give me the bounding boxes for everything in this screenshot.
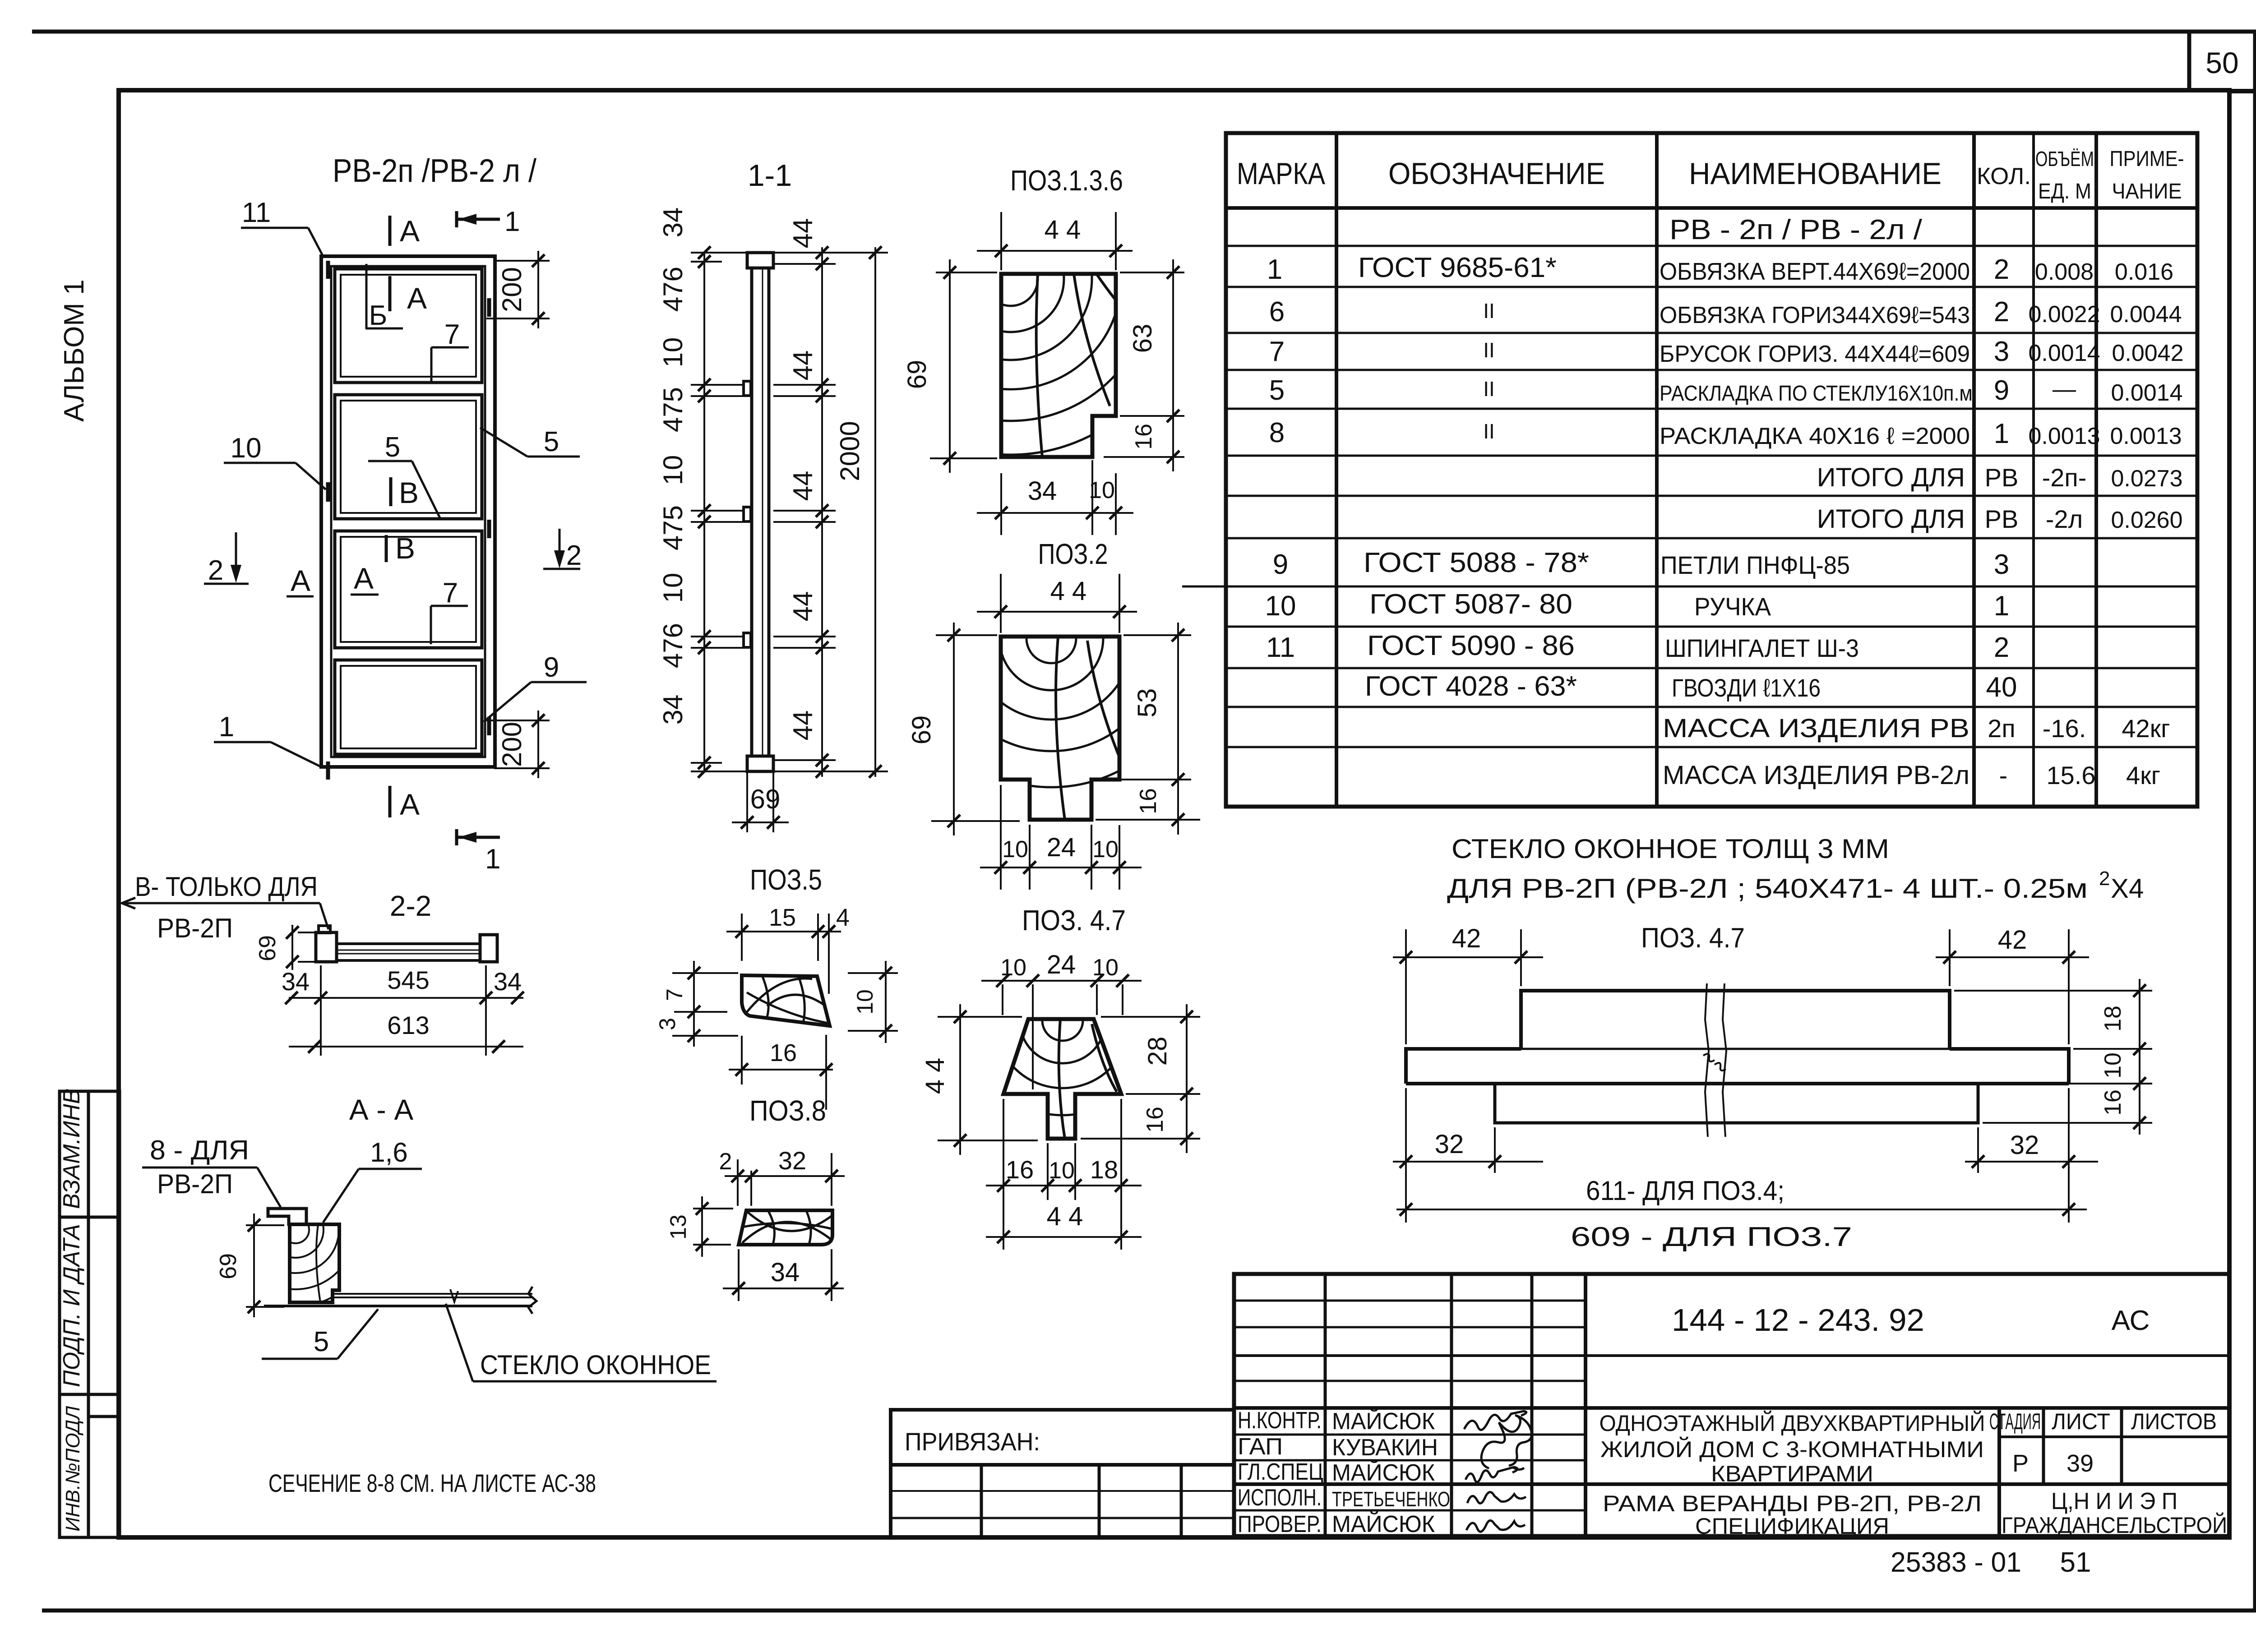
svg-text:42: 42: [1998, 925, 2027, 955]
svg-text:2п: 2п: [1988, 714, 2015, 743]
svg-text:СПЕЦИФИКАЦИЯ: СПЕЦИФИКАЦИЯ: [1695, 1514, 1889, 1539]
svg-text:МАССА ИЗДЕЛИЯ РВ: МАССА ИЗДЕЛИЯ РВ: [1663, 714, 1969, 743]
svg-text:НАИМЕНОВАНИЕ: НАИМЕНОВАНИЕ: [1689, 157, 1942, 191]
svg-text:А: А: [400, 214, 420, 248]
svg-text:6: 6: [1269, 296, 1285, 328]
svg-text:42кг: 42кг: [2122, 714, 2170, 743]
svg-text:44: 44: [788, 591, 818, 622]
svg-text:200: 200: [497, 722, 527, 767]
svg-text:10: 10: [1002, 836, 1028, 863]
svg-text:АС: АС: [2112, 1305, 2150, 1336]
svg-text:44: 44: [788, 711, 818, 741]
svg-text:11: 11: [1266, 632, 1295, 663]
svg-text:2: 2: [208, 555, 223, 586]
svg-text:0.0013: 0.0013: [2110, 423, 2182, 449]
svg-text:5: 5: [314, 1326, 329, 1357]
svg-text:3: 3: [1994, 336, 2009, 367]
svg-text:16: 16: [2100, 1089, 2126, 1116]
svg-text:—: —: [2053, 376, 2076, 402]
svg-text:ГАП: ГАП: [1238, 1434, 1283, 1460]
svg-text:Б: Б: [369, 300, 388, 331]
svg-text:18: 18: [2100, 1006, 2126, 1032]
svg-text:1,6: 1,6: [370, 1137, 407, 1167]
svg-text:50: 50: [2205, 46, 2238, 79]
svg-text:ОБОЗНАЧЕНИЕ: ОБОЗНАЧЕНИЕ: [1388, 157, 1605, 191]
svg-text:7: 7: [444, 319, 460, 350]
svg-text:16: 16: [770, 1039, 797, 1066]
svg-text:7: 7: [443, 577, 458, 609]
svg-text:5: 5: [1269, 375, 1285, 406]
svg-text:СЕЧЕНИЕ 8-8 СМ. НА ЛИСТЕ АС-3: СЕЧЕНИЕ 8-8 СМ. НА ЛИСТЕ АС-38: [268, 1469, 596, 1497]
svg-text:4 4: 4 4: [920, 1058, 950, 1094]
svg-text:МАССА ИЗДЕЛИЯ РВ-2л: МАССА ИЗДЕЛИЯ РВ-2л: [1663, 761, 1969, 790]
svg-text:51: 51: [2060, 1547, 2091, 1578]
svg-text:10: 10: [231, 433, 262, 464]
svg-text:2: 2: [2099, 868, 2110, 890]
svg-text:ОБЪЁМ: ОБЪЁМ: [2035, 147, 2094, 171]
svg-text:4 4: 4 4: [1045, 215, 1081, 245]
svg-text:1: 1: [1994, 591, 2009, 622]
svg-text:А: А: [400, 788, 420, 821]
svg-text:0.008: 0.008: [2035, 259, 2094, 285]
svg-text:РВ: РВ: [1985, 463, 2019, 492]
svg-text:200: 200: [497, 267, 527, 312]
svg-text:10: 10: [2100, 1052, 2126, 1079]
svg-text:ПОЗ.8: ПОЗ.8: [749, 1094, 826, 1127]
svg-text:ПОДП. И ДАТА: ПОДП. И ДАТА: [59, 1224, 85, 1387]
svg-text:Н.КОНТР.: Н.КОНТР.: [1238, 1407, 1322, 1434]
svg-text:ПРИВЯЗАН:: ПРИВЯЗАН:: [905, 1427, 1040, 1456]
svg-text:МАЙСЮК: МАЙСЮК: [1332, 1459, 1435, 1486]
svg-text:34: 34: [771, 1258, 800, 1287]
svg-text:ИСПОЛН.: ИСПОЛН.: [1238, 1485, 1322, 1511]
svg-text:ИТОГО ДЛЯ: ИТОГО ДЛЯ: [1817, 504, 1965, 534]
svg-text:II: II: [1483, 420, 1495, 443]
svg-text:0.0273: 0.0273: [2111, 466, 2182, 492]
svg-text:В: В: [395, 531, 415, 565]
svg-text:РВ-2П: РВ-2П: [157, 1169, 233, 1199]
svg-text:ГВОЗДИ ℓ1X16: ГВОЗДИ ℓ1X16: [1672, 674, 1821, 702]
svg-text:4кг: 4кг: [2126, 761, 2160, 789]
svg-text:ВЗАМ.ИНВ: ВЗАМ.ИНВ: [59, 1089, 85, 1209]
svg-text:МАРКА: МАРКА: [1237, 157, 1326, 191]
svg-text:ДЛЯ РВ-2П (РВ-2Л ; 540X471-: ДЛЯ РВ-2П (РВ-2Л ; 540X471- 4 ШТ.- 0.25м: [1447, 873, 2088, 904]
svg-text:8: 8: [1269, 417, 1285, 448]
svg-text:1: 1: [504, 206, 520, 237]
svg-text:РВ-2п /РВ-2 л /: РВ-2п /РВ-2 л /: [333, 153, 536, 189]
svg-text:II: II: [1483, 338, 1495, 362]
svg-text:3: 3: [1994, 549, 2009, 580]
svg-text:0.0042: 0.0042: [2112, 340, 2183, 366]
svg-text:545: 545: [387, 966, 429, 994]
svg-text:2-2: 2-2: [390, 890, 432, 922]
svg-text:10: 10: [1265, 591, 1296, 622]
svg-text:609 - ДЛЯ ПОЗ.7: 609 - ДЛЯ ПОЗ.7: [1571, 1222, 1852, 1252]
svg-text:ИНВ.№ПОДЛ: ИНВ.№ПОДЛ: [62, 1406, 84, 1532]
svg-text:-2л: -2л: [2046, 505, 2083, 533]
svg-text:В- ТОЛЬКО ДЛЯ: В- ТОЛЬКО ДЛЯ: [135, 872, 318, 902]
svg-text:А: А: [291, 564, 310, 597]
svg-text:32: 32: [2010, 1131, 2039, 1160]
svg-text:РАСКЛАДКА ПО СТЕКЛУ16X10п.м: РАСКЛАДКА ПО СТЕКЛУ16X10п.м: [1660, 382, 1973, 406]
svg-text:144 - 12 - 243. 92: 144 - 12 - 243. 92: [1672, 1302, 1924, 1338]
svg-text:53: 53: [1133, 688, 1162, 718]
svg-text:1: 1: [1994, 418, 2009, 449]
svg-text:РВ - 2п / РВ - 2л /: РВ - 2п / РВ - 2л /: [1669, 214, 1923, 245]
svg-text:ОБВЯЗКА ГОРИЗ44X69ℓ=543: ОБВЯЗКА ГОРИЗ44X69ℓ=543: [1660, 302, 1970, 328]
svg-text:БРУСОК ГОРИЗ. 44X44ℓ=609: БРУСОК ГОРИЗ. 44X44ℓ=609: [1660, 341, 1970, 367]
svg-text:Р: Р: [2012, 1450, 2029, 1477]
svg-text:II: II: [1483, 299, 1495, 323]
svg-text:9: 9: [544, 652, 559, 683]
svg-text:69: 69: [215, 1253, 241, 1279]
svg-text:10: 10: [852, 989, 878, 1015]
svg-text:ПОЗ.5: ПОЗ.5: [750, 863, 822, 896]
svg-text:РВ: РВ: [1985, 505, 2019, 533]
svg-text:32: 32: [1435, 1130, 1464, 1159]
svg-text:РАСКЛАДКА 40X16 ℓ =2000: РАСКЛАДКА 40X16 ℓ =2000: [1660, 423, 1970, 449]
svg-text:15: 15: [769, 904, 796, 931]
svg-text:10: 10: [1092, 836, 1119, 863]
svg-text:24: 24: [1047, 950, 1076, 979]
svg-text:-: -: [1999, 761, 2008, 789]
svg-text:ПОЗ. 4.7: ПОЗ. 4.7: [1641, 923, 1745, 954]
svg-text:ЖИЛОЙ ДОМ С 3-КОМНАТНЫМИ: ЖИЛОЙ ДОМ С 3-КОМНАТНЫМИ: [1600, 1436, 1984, 1462]
svg-text:2000: 2000: [835, 421, 865, 481]
svg-text:15.6: 15.6: [2047, 761, 2096, 789]
svg-text:1-1: 1-1: [748, 158, 792, 193]
svg-text:КВАРТИРАМИ: КВАРТИРАМИ: [1711, 1461, 1873, 1486]
svg-text:2: 2: [719, 1149, 732, 1175]
svg-text:34: 34: [1028, 476, 1057, 506]
svg-text:34: 34: [658, 695, 688, 725]
svg-text:МАЙСЮК: МАЙСЮК: [1332, 1511, 1435, 1537]
svg-text:0.0014: 0.0014: [2028, 340, 2100, 366]
svg-text:РАМА ВЕРАНДЫ РВ-2П, РВ-2Л: РАМА ВЕРАНДЫ РВ-2П, РВ-2Л: [1603, 1491, 1982, 1516]
svg-text:ЧАНИЕ: ЧАНИЕ: [2112, 180, 2182, 203]
svg-text:10: 10: [1092, 955, 1119, 981]
svg-text:РВ-2П: РВ-2П: [157, 913, 233, 943]
svg-text:4: 4: [836, 904, 850, 931]
svg-text:2: 2: [1994, 632, 2009, 663]
svg-text:10: 10: [658, 573, 688, 603]
svg-text:Ц,Н И И Э П: Ц,Н И И Э П: [2051, 1488, 2177, 1514]
svg-text:ЛИСТ: ЛИСТ: [2052, 1409, 2110, 1434]
svg-text:7: 7: [662, 988, 687, 1001]
svg-text:КОЛ.: КОЛ.: [1977, 163, 2031, 189]
svg-text:613: 613: [387, 1011, 429, 1039]
svg-text:28: 28: [1143, 1037, 1172, 1066]
svg-text:475: 475: [658, 387, 688, 432]
svg-text:1: 1: [219, 711, 234, 743]
svg-text:18: 18: [1090, 1155, 1118, 1184]
svg-text:10: 10: [1049, 1158, 1075, 1184]
svg-text:ГОСТ 5088 - 78*: ГОСТ 5088 - 78*: [1364, 547, 1589, 578]
svg-text:8 - ДЛЯ: 8 - ДЛЯ: [150, 1135, 249, 1165]
svg-text:1: 1: [1267, 254, 1282, 285]
svg-text:0.016: 0.016: [2115, 259, 2173, 285]
svg-text:ГРАЖДАНСЕЛЬСТРОЙ: ГРАЖДАНСЕЛЬСТРОЙ: [2002, 1512, 2227, 1538]
svg-text:611- ДЛЯ ПОЗ.4;: 611- ДЛЯ ПОЗ.4;: [1586, 1176, 1784, 1206]
svg-text:ОБВЯЗКА ВЕРТ.44X69ℓ=2000: ОБВЯЗКА ВЕРТ.44X69ℓ=2000: [1660, 258, 1970, 285]
svg-text:СТЕКЛО ОКОННОЕ: СТЕКЛО ОКОННОЕ: [480, 1350, 711, 1380]
svg-text:10: 10: [658, 337, 688, 368]
svg-text:2: 2: [566, 540, 582, 571]
svg-text:476: 476: [658, 267, 688, 312]
svg-text:II: II: [1483, 377, 1495, 401]
svg-text:5: 5: [544, 426, 559, 457]
svg-text:СТЕКЛО ОКОННОЕ ТОЛЩ 3 ММ: СТЕКЛО ОКОННОЕ ТОЛЩ 3 ММ: [1452, 834, 1889, 864]
svg-text:ПЕТЛИ ПНФЦ-85: ПЕТЛИ ПНФЦ-85: [1660, 551, 1850, 579]
svg-text:475: 475: [658, 505, 688, 550]
svg-text:ЕД. М: ЕД. М: [2038, 180, 2091, 203]
svg-text:РУЧКА: РУЧКА: [1694, 592, 1771, 621]
svg-text:25383 - 01: 25383 - 01: [1891, 1547, 2021, 1578]
svg-text:16: 16: [1131, 424, 1157, 450]
svg-text:ШПИНГАЛЕТ Ш-3: ШПИНГАЛЕТ Ш-3: [1665, 634, 1859, 662]
svg-text:ГОСТ 9685-61*: ГОСТ 9685-61*: [1358, 252, 1557, 283]
svg-text:ИТОГО ДЛЯ: ИТОГО ДЛЯ: [1817, 463, 1965, 492]
svg-text:16: 16: [1006, 1155, 1034, 1184]
svg-text:44: 44: [788, 218, 818, 249]
svg-text:7: 7: [1269, 336, 1285, 367]
svg-text:32: 32: [778, 1146, 806, 1175]
svg-text:34: 34: [658, 208, 688, 238]
svg-text:ПОЗ. 4.7: ПОЗ. 4.7: [1022, 904, 1126, 937]
svg-text:44: 44: [788, 471, 818, 501]
svg-text:69: 69: [902, 360, 932, 389]
svg-text:ГОСТ 4028 - 63*: ГОСТ 4028 - 63*: [1365, 671, 1577, 702]
svg-text:АЛЬБОМ 1: АЛЬБОМ 1: [59, 279, 90, 422]
svg-text:40: 40: [1986, 672, 2017, 703]
svg-text:63: 63: [1128, 324, 1157, 353]
svg-text:0.0044: 0.0044: [2110, 301, 2182, 328]
svg-text:42: 42: [1452, 924, 1481, 953]
svg-text:ОДНОЭТАЖНЫЙ ДВУХКВАРТИРНЫЙ: ОДНОЭТАЖНЫЙ ДВУХКВАРТИРНЫЙ: [1600, 1410, 1985, 1436]
svg-text:4 4: 4 4: [1047, 1202, 1083, 1231]
svg-text:А: А: [407, 281, 427, 315]
svg-text:2: 2: [1994, 296, 2009, 328]
svg-text:9: 9: [1994, 375, 2009, 406]
svg-text:44: 44: [788, 351, 818, 381]
svg-text:4 4: 4 4: [1050, 577, 1087, 606]
svg-text:А - А: А - А: [349, 1094, 414, 1126]
svg-text:ПРИМЕ-: ПРИМЕ-: [2110, 147, 2184, 171]
svg-text:-2п-: -2п-: [2042, 463, 2087, 492]
svg-text:5: 5: [385, 432, 400, 463]
svg-text:34: 34: [282, 967, 310, 996]
svg-text:X4: X4: [2111, 873, 2144, 904]
svg-text:ПОЗ.1.3.6: ПОЗ.1.3.6: [1010, 164, 1123, 197]
svg-text:ГОСТ 5087- 80: ГОСТ 5087- 80: [1369, 589, 1572, 620]
svg-text:А: А: [354, 562, 374, 595]
svg-text:0.0260: 0.0260: [2111, 507, 2182, 533]
svg-text:1: 1: [485, 844, 500, 875]
svg-text:476: 476: [658, 623, 688, 668]
svg-text:10: 10: [1000, 955, 1026, 981]
svg-text:ТРЕТЬЕЧЕНКО: ТРЕТЬЕЧЕНКО: [1332, 1487, 1450, 1511]
svg-text:ПРОВЕР.: ПРОВЕР.: [1238, 1511, 1322, 1537]
svg-text:10: 10: [1089, 477, 1115, 503]
svg-text:2: 2: [1994, 254, 2009, 285]
svg-text:ГЛ.СПЕЦ: ГЛ.СПЕЦ: [1238, 1459, 1323, 1485]
svg-text:ГОСТ 5090 - 86: ГОСТ 5090 - 86: [1367, 630, 1575, 661]
svg-text:3: 3: [655, 1018, 680, 1030]
svg-text:11: 11: [242, 197, 271, 228]
svg-text:0.0013: 0.0013: [2028, 423, 2100, 449]
svg-text:КУВАКИН: КУВАКИН: [1332, 1435, 1438, 1461]
svg-text:-16.: -16.: [2043, 714, 2086, 743]
svg-text:16: 16: [1142, 1107, 1168, 1133]
svg-text:24: 24: [1047, 833, 1076, 862]
svg-text:ЛИСТОВ: ЛИСТОВ: [2131, 1409, 2217, 1434]
svg-text:10: 10: [658, 455, 688, 485]
svg-text:0.0022: 0.0022: [2028, 301, 2100, 328]
svg-text:34: 34: [494, 967, 522, 996]
svg-text:69: 69: [750, 784, 781, 814]
svg-text:69: 69: [907, 715, 936, 745]
svg-text:ПОЗ.2: ПОЗ.2: [1038, 538, 1108, 570]
svg-text:9: 9: [1273, 549, 1288, 580]
svg-text:39: 39: [2066, 1450, 2094, 1477]
svg-text:В: В: [399, 476, 419, 509]
svg-text:13: 13: [666, 1214, 691, 1240]
svg-text:СТАДИЯ: СТАДИЯ: [1989, 1409, 2041, 1434]
svg-text:МАЙСЮК: МАЙСЮК: [1332, 1408, 1435, 1435]
svg-text:0.0014: 0.0014: [2111, 380, 2182, 406]
svg-text:69: 69: [254, 935, 281, 961]
svg-text:16: 16: [1135, 788, 1161, 814]
